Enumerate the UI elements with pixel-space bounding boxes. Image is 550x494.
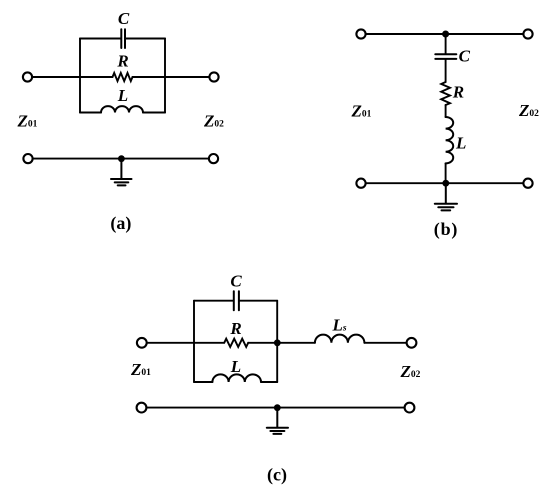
svg-text:Z02: Z02 — [518, 101, 539, 120]
svg-text:L: L — [117, 86, 128, 105]
wire middle right segment (a) — [133, 76, 166, 78]
wire box top edge left segment (c) — [194, 300, 234, 302]
capacitor C (a) plates — [121, 29, 125, 48]
port terminal left-bottom (c) — [137, 403, 147, 413]
svg-text:Z02: Z02 — [400, 362, 421, 381]
port terminal left-bottom (b) — [356, 179, 365, 188]
wire from left port to box (a) — [32, 76, 80, 78]
port terminal right-bottom (c) — [405, 403, 415, 413]
junction dot top (b) — [442, 31, 449, 38]
port terminal right-top (c) — [407, 338, 417, 348]
resistor R (a) — [113, 73, 133, 81]
wire middle left segment (c) — [194, 342, 224, 344]
wire middle left segment (a) — [80, 76, 113, 78]
port terminal left-top (b) — [356, 29, 365, 38]
ground (c) — [267, 408, 288, 434]
wire bottom (a) — [33, 158, 209, 160]
svg-text:Z02: Z02 — [203, 112, 224, 131]
svg-text:L: L — [230, 357, 241, 376]
svg-text:(c): (c) — [267, 465, 287, 486]
wire box top edge right segment (c) — [239, 300, 277, 302]
port terminal right-top (a) — [209, 72, 218, 81]
inductor L (a) — [101, 106, 143, 112]
wire top (b) — [366, 33, 523, 35]
wire box bottom edge right segment (a) — [143, 112, 165, 114]
wire bottom (b) — [366, 182, 523, 184]
port terminal left-bottom (a) — [23, 154, 32, 163]
wire box right edge (a) — [164, 39, 166, 113]
inductor L (c) — [212, 374, 261, 382]
wire box top edge right segment (a) — [125, 38, 165, 40]
capacitor C (b) plates — [435, 54, 456, 59]
inductor Ls (c) — [315, 335, 365, 343]
inductor L (b) — [446, 117, 454, 163]
wire box left edge (a) — [79, 39, 81, 113]
resistor R (b) — [441, 82, 450, 105]
port terminal right-bottom (b) — [523, 179, 532, 188]
wire box right edge (c) — [276, 301, 278, 382]
resistor R (c) — [224, 339, 248, 347]
svg-text:Ls: Ls — [332, 316, 347, 335]
wire box left edge (c) — [193, 301, 195, 382]
svg-text:(a): (a) — [110, 213, 131, 234]
wire from left port to box (c) — [147, 342, 194, 344]
junction dot bottom (c) — [274, 404, 281, 411]
wire box bottom edge right segment (c) — [261, 381, 277, 383]
wire from box to right port (a) — [165, 76, 209, 78]
svg-text:C: C — [118, 9, 130, 28]
wire box top edge left segment (a) — [80, 38, 121, 40]
svg-text:C: C — [230, 272, 242, 291]
svg-text:Z01: Z01 — [17, 111, 38, 130]
svg-text:R: R — [452, 83, 464, 102]
wire box bottom edge left segment (c) — [194, 381, 212, 383]
svg-text:L: L — [455, 134, 466, 153]
wire box bottom edge left segment (a) — [80, 112, 101, 114]
svg-text:R: R — [116, 52, 128, 71]
port terminal right-bottom (a) — [209, 154, 218, 163]
junction dot bottom (b) — [442, 180, 449, 187]
wire resistor to inductor (b) — [445, 105, 447, 117]
junction dot (a) — [118, 155, 125, 162]
svg-text:(b): (b) — [434, 219, 458, 240]
wire from box to Ls (c) — [277, 342, 315, 344]
port terminal left-top (a) — [23, 72, 32, 81]
svg-text:R: R — [229, 319, 241, 338]
port terminal right-top (b) — [523, 29, 532, 38]
wire capacitor to resistor (b) — [445, 59, 447, 82]
junction dot middle (c) — [274, 339, 281, 346]
svg-text:Z01: Z01 — [351, 102, 372, 121]
capacitor C (c) plates — [234, 291, 239, 310]
ground (b) — [435, 183, 457, 210]
svg-text:Z01: Z01 — [130, 360, 151, 379]
wire from Ls to right port (c) — [364, 342, 406, 344]
ground (a) — [111, 159, 132, 186]
wire from top node to capacitor (b) — [445, 34, 447, 54]
port terminal left-top (c) — [137, 338, 147, 348]
wire inductor to bottom node (b) — [445, 163, 447, 183]
svg-text:C: C — [459, 47, 471, 66]
wire middle right segment (c) — [248, 342, 277, 344]
wire bottom (c) — [147, 407, 405, 409]
